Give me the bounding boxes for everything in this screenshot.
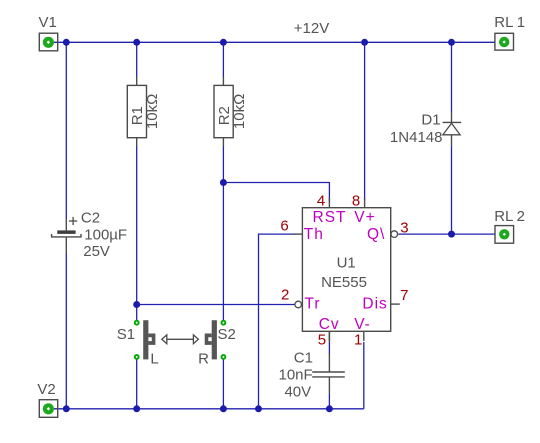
- svg-text:1: 1: [354, 332, 362, 349]
- svg-text:Q\: Q\: [367, 226, 385, 243]
- capacitor C1: [278, 331, 344, 400]
- pin label V+: [354, 209, 375, 226]
- pin number 3: [400, 220, 408, 237]
- node junction R1 top: [133, 39, 140, 46]
- svg-text:RST: RST: [313, 209, 347, 226]
- node junction R2 RST: [220, 179, 227, 186]
- svg-text:Dis: Dis: [362, 295, 387, 312]
- wire V+ pin8: [364, 42, 366, 200]
- pin number 8: [352, 192, 360, 209]
- svg-text:5: 5: [318, 332, 326, 349]
- node junction S1 bottom: [133, 405, 140, 412]
- wire RST pin4: [223, 183, 329, 203]
- op-amp U1 NE555: [294, 198, 400, 341]
- svg-text:100µF: 100µF: [84, 227, 127, 244]
- resistor R1: [127, 77, 161, 147]
- switch S2: [198, 320, 236, 367]
- node junction V2: [63, 405, 70, 412]
- arrow between S1 and S2: [162, 335, 199, 344]
- svg-text:C1: C1: [294, 350, 313, 367]
- svg-text:8: 8: [352, 192, 360, 209]
- wire R1 branch: [136, 42, 138, 409]
- wire Tr pin2: [137, 304, 295, 306]
- svg-text:4: 4: [317, 192, 325, 209]
- pin label RST: [313, 209, 347, 226]
- wire top +12V rail: [54, 41, 495, 43]
- svg-text:S1: S1: [117, 326, 135, 343]
- wire C1 pin5 branch: [328, 342, 330, 409]
- svg-text:40V: 40V: [284, 384, 311, 401]
- node junction Q D1 RL2: [448, 231, 455, 238]
- node junction D1 top: [448, 39, 455, 46]
- pin label Q\: [367, 226, 385, 243]
- wire R2 branch: [222, 42, 224, 409]
- pin label Dis: [362, 295, 387, 312]
- resistor R2: [214, 77, 248, 147]
- node junction Th bottom: [255, 405, 262, 412]
- pin number 2: [281, 287, 289, 304]
- wire bottom rail: [54, 408, 364, 410]
- terminal RL1: [494, 14, 525, 50]
- terminal V2: [37, 381, 57, 418]
- svg-text:7: 7: [400, 287, 408, 304]
- wire Q pin3 to RL2: [398, 233, 495, 235]
- svg-text:V-: V-: [354, 316, 371, 333]
- wire V1 to V2 left vertical: [65, 42, 67, 409]
- wire D1 branch: [451, 42, 453, 234]
- node junction C1 bottom: [326, 405, 333, 412]
- svg-text:S2: S2: [218, 326, 236, 343]
- svg-text:U1: U1: [337, 255, 356, 272]
- wire Th pin6: [259, 234, 296, 409]
- svg-text:V1: V1: [39, 14, 57, 31]
- diode D1: [390, 112, 461, 147]
- pin number 1: [354, 332, 362, 349]
- svg-text:3: 3: [400, 220, 408, 237]
- svg-text:D1: D1: [421, 112, 440, 129]
- pin number 5: [318, 332, 326, 349]
- svg-text:NE555: NE555: [321, 274, 367, 291]
- svg-text:Th: Th: [304, 226, 324, 243]
- svg-text:RL1: RL1: [494, 14, 525, 31]
- net label +12V: [294, 20, 329, 37]
- svg-text:25V: 25V: [83, 243, 110, 260]
- pin number 6: [280, 217, 288, 234]
- pin number 4: [317, 192, 325, 209]
- pin label Th: [304, 226, 324, 243]
- pin label Cv: [319, 316, 340, 333]
- svg-text:L: L: [150, 350, 158, 367]
- node junction R1 Tr: [133, 301, 140, 308]
- svg-text:1N4148: 1N4148: [390, 129, 443, 146]
- svg-text:V+: V+: [354, 209, 375, 226]
- pin number 7: [400, 287, 408, 304]
- pin label V-: [354, 316, 371, 333]
- node junction S2 bottom: [220, 405, 227, 412]
- terminal V1: [39, 14, 58, 51]
- svg-text:2: 2: [281, 287, 289, 304]
- svg-text:RL2: RL2: [494, 208, 525, 225]
- node junction R2 top: [220, 39, 227, 46]
- svg-text:C2: C2: [81, 209, 100, 226]
- svg-text:10nF: 10nF: [278, 367, 312, 384]
- svg-text:+12V: +12V: [294, 20, 329, 37]
- svg-text:10kΩ: 10kΩ: [144, 94, 161, 129]
- capacitor C2: [52, 209, 128, 260]
- svg-text:R: R: [198, 350, 209, 367]
- svg-text:10kΩ: 10kΩ: [231, 94, 248, 129]
- node junction V+ rail: [361, 39, 368, 46]
- wire V- pin1 branch: [363, 342, 365, 409]
- svg-text:Tr: Tr: [305, 295, 321, 312]
- switch S1: [117, 320, 159, 367]
- svg-text:Cv: Cv: [319, 316, 340, 333]
- node junction V1 rail: [63, 39, 70, 46]
- pin label Tr: [305, 295, 321, 312]
- svg-text:6: 6: [280, 217, 288, 234]
- svg-text:V2: V2: [37, 381, 55, 398]
- terminal RL2: [494, 208, 525, 243]
